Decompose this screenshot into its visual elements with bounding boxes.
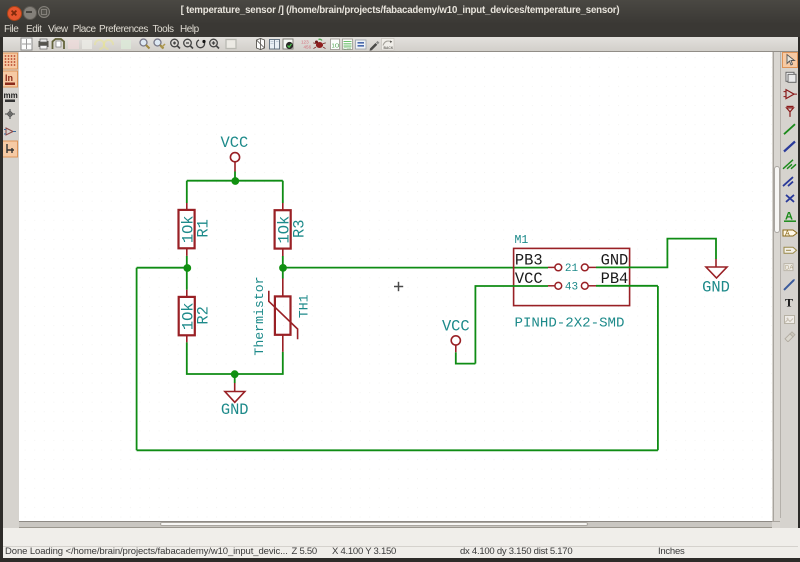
svg-text:456: 456 <box>304 45 312 50</box>
wire VCC stem <box>234 172 236 181</box>
wire PB4 pin to right vertical <box>596 285 658 287</box>
wire mid long horizontal to M1 PB3 <box>283 267 548 269</box>
svg-text:CSV: CSV <box>344 47 352 51</box>
wire R1 to junction <box>186 256 188 268</box>
toolbar <box>0 37 800 52</box>
wire VCC row to M1 <box>475 286 548 364</box>
svg-text:PINHD-2X2-SMD: PINHD-2X2-SMD <box>515 315 625 331</box>
wire GND stem <box>234 374 236 383</box>
svg-text:PB3: PB3 <box>515 251 543 269</box>
svg-text:R2: R2 <box>194 306 212 324</box>
junction top <box>231 177 239 185</box>
svg-text:1O: 1O <box>332 44 340 50</box>
wire TH1 bottom to junction <box>235 352 283 374</box>
wire R2 bottom <box>187 342 235 374</box>
wire junction to TH1 <box>282 268 284 279</box>
menu bar <box>0 23 800 37</box>
wire GND pin to right <box>596 239 716 268</box>
thermistor TH1 <box>269 279 298 352</box>
canvas <box>19 52 772 521</box>
junction right mid <box>279 264 287 272</box>
svg-text:mm: mm <box>4 91 18 100</box>
cursor crosshair <box>394 282 403 291</box>
svg-text:21: 21 <box>565 263 579 275</box>
wire VCC stem horizontal <box>456 352 476 363</box>
svg-text:Thermistor: Thermistor <box>252 276 267 355</box>
svg-text:M1: M1 <box>515 234 529 247</box>
wire mid-left horizontal <box>137 267 187 269</box>
svg-text:GND: GND <box>221 401 249 419</box>
wire R3 to junction <box>282 256 284 268</box>
status bar <box>0 528 800 559</box>
svg-text:In: In <box>5 73 13 83</box>
svg-text:43: 43 <box>565 281 578 293</box>
svg-text:VCC: VCC <box>442 317 470 335</box>
svg-text:R3: R3 <box>290 219 308 237</box>
resistor R1 <box>179 203 195 256</box>
wire top horizontal <box>187 180 283 182</box>
scrollbars <box>773 52 781 521</box>
wire right long vertical <box>657 286 659 450</box>
pin 1 (PB3) <box>548 264 562 271</box>
title bar <box>0 0 800 23</box>
svg-text:VCC: VCC <box>515 270 543 288</box>
svg-text:A: A <box>785 231 790 238</box>
wire left long vertical <box>136 268 138 451</box>
svg-text:GND: GND <box>702 278 730 296</box>
ground GND (right) <box>706 259 727 278</box>
power symbol VCC (mid) <box>451 336 460 352</box>
svg-text:BACK: BACK <box>384 46 394 50</box>
svg-text:R1: R1 <box>194 219 212 237</box>
wire junction to R2 <box>186 268 188 290</box>
junction left mid <box>183 264 191 272</box>
connector M1 box <box>514 248 630 305</box>
left toolbar <box>0 37 3 558</box>
wire bottom long horizontal <box>137 449 658 451</box>
svg-text:T: T <box>785 296 793 310</box>
svg-text:DA: DA <box>785 266 793 272</box>
pin 2 (GND) <box>581 264 596 271</box>
ground GND (bottom) <box>225 383 245 402</box>
junction bottom <box>231 370 239 378</box>
svg-text:TH1: TH1 <box>296 294 311 318</box>
pin 3 (VCC) <box>548 282 562 289</box>
right toolbar <box>780 52 800 518</box>
power symbol VCC (top) <box>230 153 239 172</box>
resistor R2 <box>179 290 195 343</box>
pin 4 (PB4) <box>581 282 596 289</box>
wire right vertical to R3 <box>282 181 284 203</box>
svg-text:VCC: VCC <box>221 134 249 152</box>
resistor R3 <box>275 203 291 256</box>
wire left vertical to R1 <box>186 181 188 203</box>
